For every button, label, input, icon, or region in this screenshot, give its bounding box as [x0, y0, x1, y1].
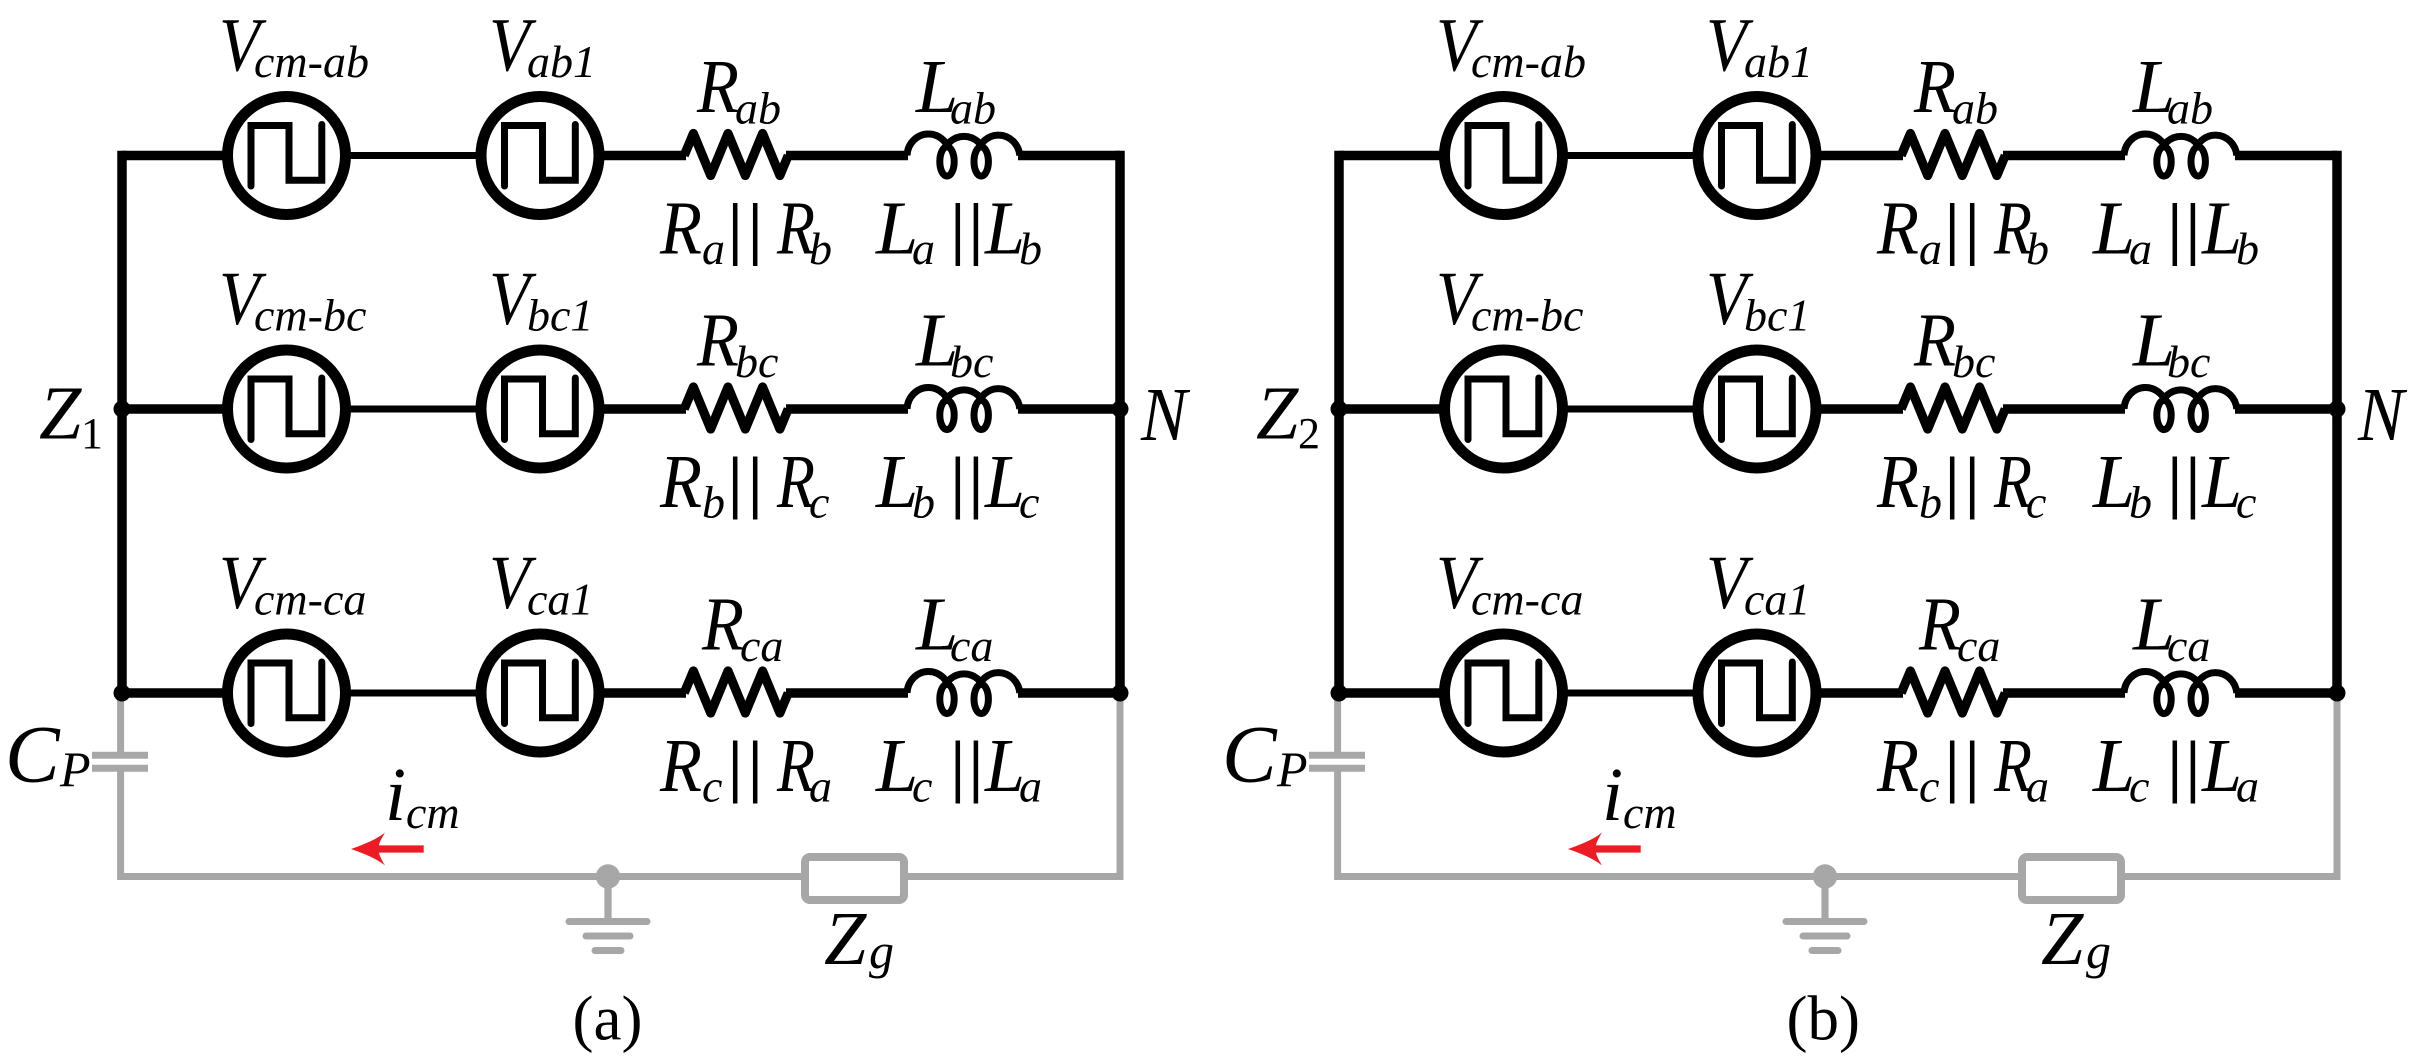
- svg-text:ca: ca: [1957, 620, 2000, 671]
- svg-text:Z: Z: [1256, 372, 1299, 456]
- svg-text:a: a: [2129, 223, 2152, 274]
- svg-text:b: b: [702, 477, 725, 528]
- svg-text:cm-bc: cm-bc: [1471, 290, 1583, 341]
- svg-text:a: a: [2026, 761, 2049, 812]
- svg-text:R: R: [659, 187, 702, 271]
- svg-text:R: R: [1876, 724, 1919, 808]
- svg-text:c: c: [912, 761, 932, 812]
- svg-text:Z: Z: [2041, 897, 2084, 981]
- svg-text:c: c: [2026, 477, 2046, 528]
- svg-text:cm-bc: cm-bc: [254, 290, 366, 341]
- svg-text:c: c: [809, 477, 829, 528]
- svg-text:bc: bc: [735, 336, 778, 387]
- svg-text:c: c: [2236, 477, 2256, 528]
- svg-text:b: b: [2129, 477, 2152, 528]
- svg-text:b: b: [809, 223, 832, 274]
- svg-text:i: i: [385, 753, 406, 837]
- svg-text:i: i: [1602, 753, 1623, 837]
- svg-text:R: R: [659, 724, 702, 808]
- svg-text:C: C: [5, 709, 61, 800]
- svg-text:R: R: [701, 583, 744, 667]
- svg-text:(a): (a): [573, 984, 643, 1054]
- svg-text:a: a: [1019, 761, 1042, 812]
- svg-text:bc1: bc1: [1744, 290, 1810, 341]
- svg-text:g: g: [869, 923, 894, 979]
- svg-text:R: R: [1918, 583, 1961, 667]
- svg-text:ca1: ca1: [1744, 574, 1810, 625]
- svg-text:cm-ca: cm-ca: [1471, 574, 1583, 625]
- svg-text:ca: ca: [740, 620, 783, 671]
- svg-text:R: R: [1876, 187, 1919, 271]
- svg-text:b: b: [912, 477, 935, 528]
- svg-text:b: b: [1019, 223, 1042, 274]
- svg-text:P: P: [59, 741, 91, 797]
- svg-text:b: b: [2026, 223, 2049, 274]
- svg-text:b: b: [2236, 223, 2259, 274]
- svg-text:(b): (b): [1787, 984, 1860, 1054]
- svg-text:a: a: [2236, 761, 2259, 812]
- svg-text:N: N: [2357, 373, 2408, 457]
- svg-text:cm-ca: cm-ca: [254, 574, 366, 625]
- svg-text:ca: ca: [2167, 620, 2210, 671]
- svg-text:N: N: [1140, 373, 1191, 457]
- svg-text:bc1: bc1: [527, 290, 593, 341]
- svg-text:a: a: [702, 223, 725, 274]
- svg-text:c: c: [1919, 761, 1939, 812]
- svg-text:ab: ab: [950, 83, 996, 134]
- svg-text:Z: Z: [824, 897, 867, 981]
- svg-text:ca1: ca1: [527, 574, 593, 625]
- svg-text:R: R: [1876, 440, 1919, 524]
- svg-text:bc: bc: [1952, 336, 1995, 387]
- svg-text:P: P: [1276, 741, 1308, 797]
- svg-text:R: R: [696, 45, 739, 129]
- svg-text:bc: bc: [2167, 336, 2210, 387]
- svg-text:cm: cm: [1623, 787, 1677, 838]
- svg-text:g: g: [2086, 923, 2111, 979]
- svg-text:bc: bc: [950, 336, 993, 387]
- svg-text:Z: Z: [39, 372, 82, 456]
- svg-text:c: c: [1019, 477, 1039, 528]
- svg-text:2: 2: [1298, 409, 1320, 458]
- svg-text:c: c: [2129, 761, 2149, 812]
- svg-text:ab: ab: [2167, 83, 2213, 134]
- svg-text:cm: cm: [406, 787, 460, 838]
- svg-text:1: 1: [81, 409, 103, 458]
- svg-text:c: c: [702, 761, 722, 812]
- svg-text:R: R: [659, 440, 702, 524]
- svg-text:ab1: ab1: [1744, 36, 1813, 87]
- svg-text:ab: ab: [1952, 83, 1998, 134]
- svg-text:ab: ab: [735, 83, 781, 134]
- svg-text:cm-ab: cm-ab: [254, 36, 369, 87]
- svg-text:R: R: [696, 299, 739, 383]
- svg-text:ab1: ab1: [527, 36, 596, 87]
- svg-text:a: a: [1919, 223, 1942, 274]
- svg-text:R: R: [1913, 45, 1956, 129]
- svg-text:a: a: [809, 761, 832, 812]
- svg-text:b: b: [1919, 477, 1942, 528]
- svg-text:C: C: [1222, 709, 1278, 800]
- svg-text:a: a: [912, 223, 935, 274]
- svg-text:ca: ca: [950, 620, 993, 671]
- svg-text:cm-ab: cm-ab: [1471, 36, 1586, 87]
- svg-text:R: R: [1913, 299, 1956, 383]
